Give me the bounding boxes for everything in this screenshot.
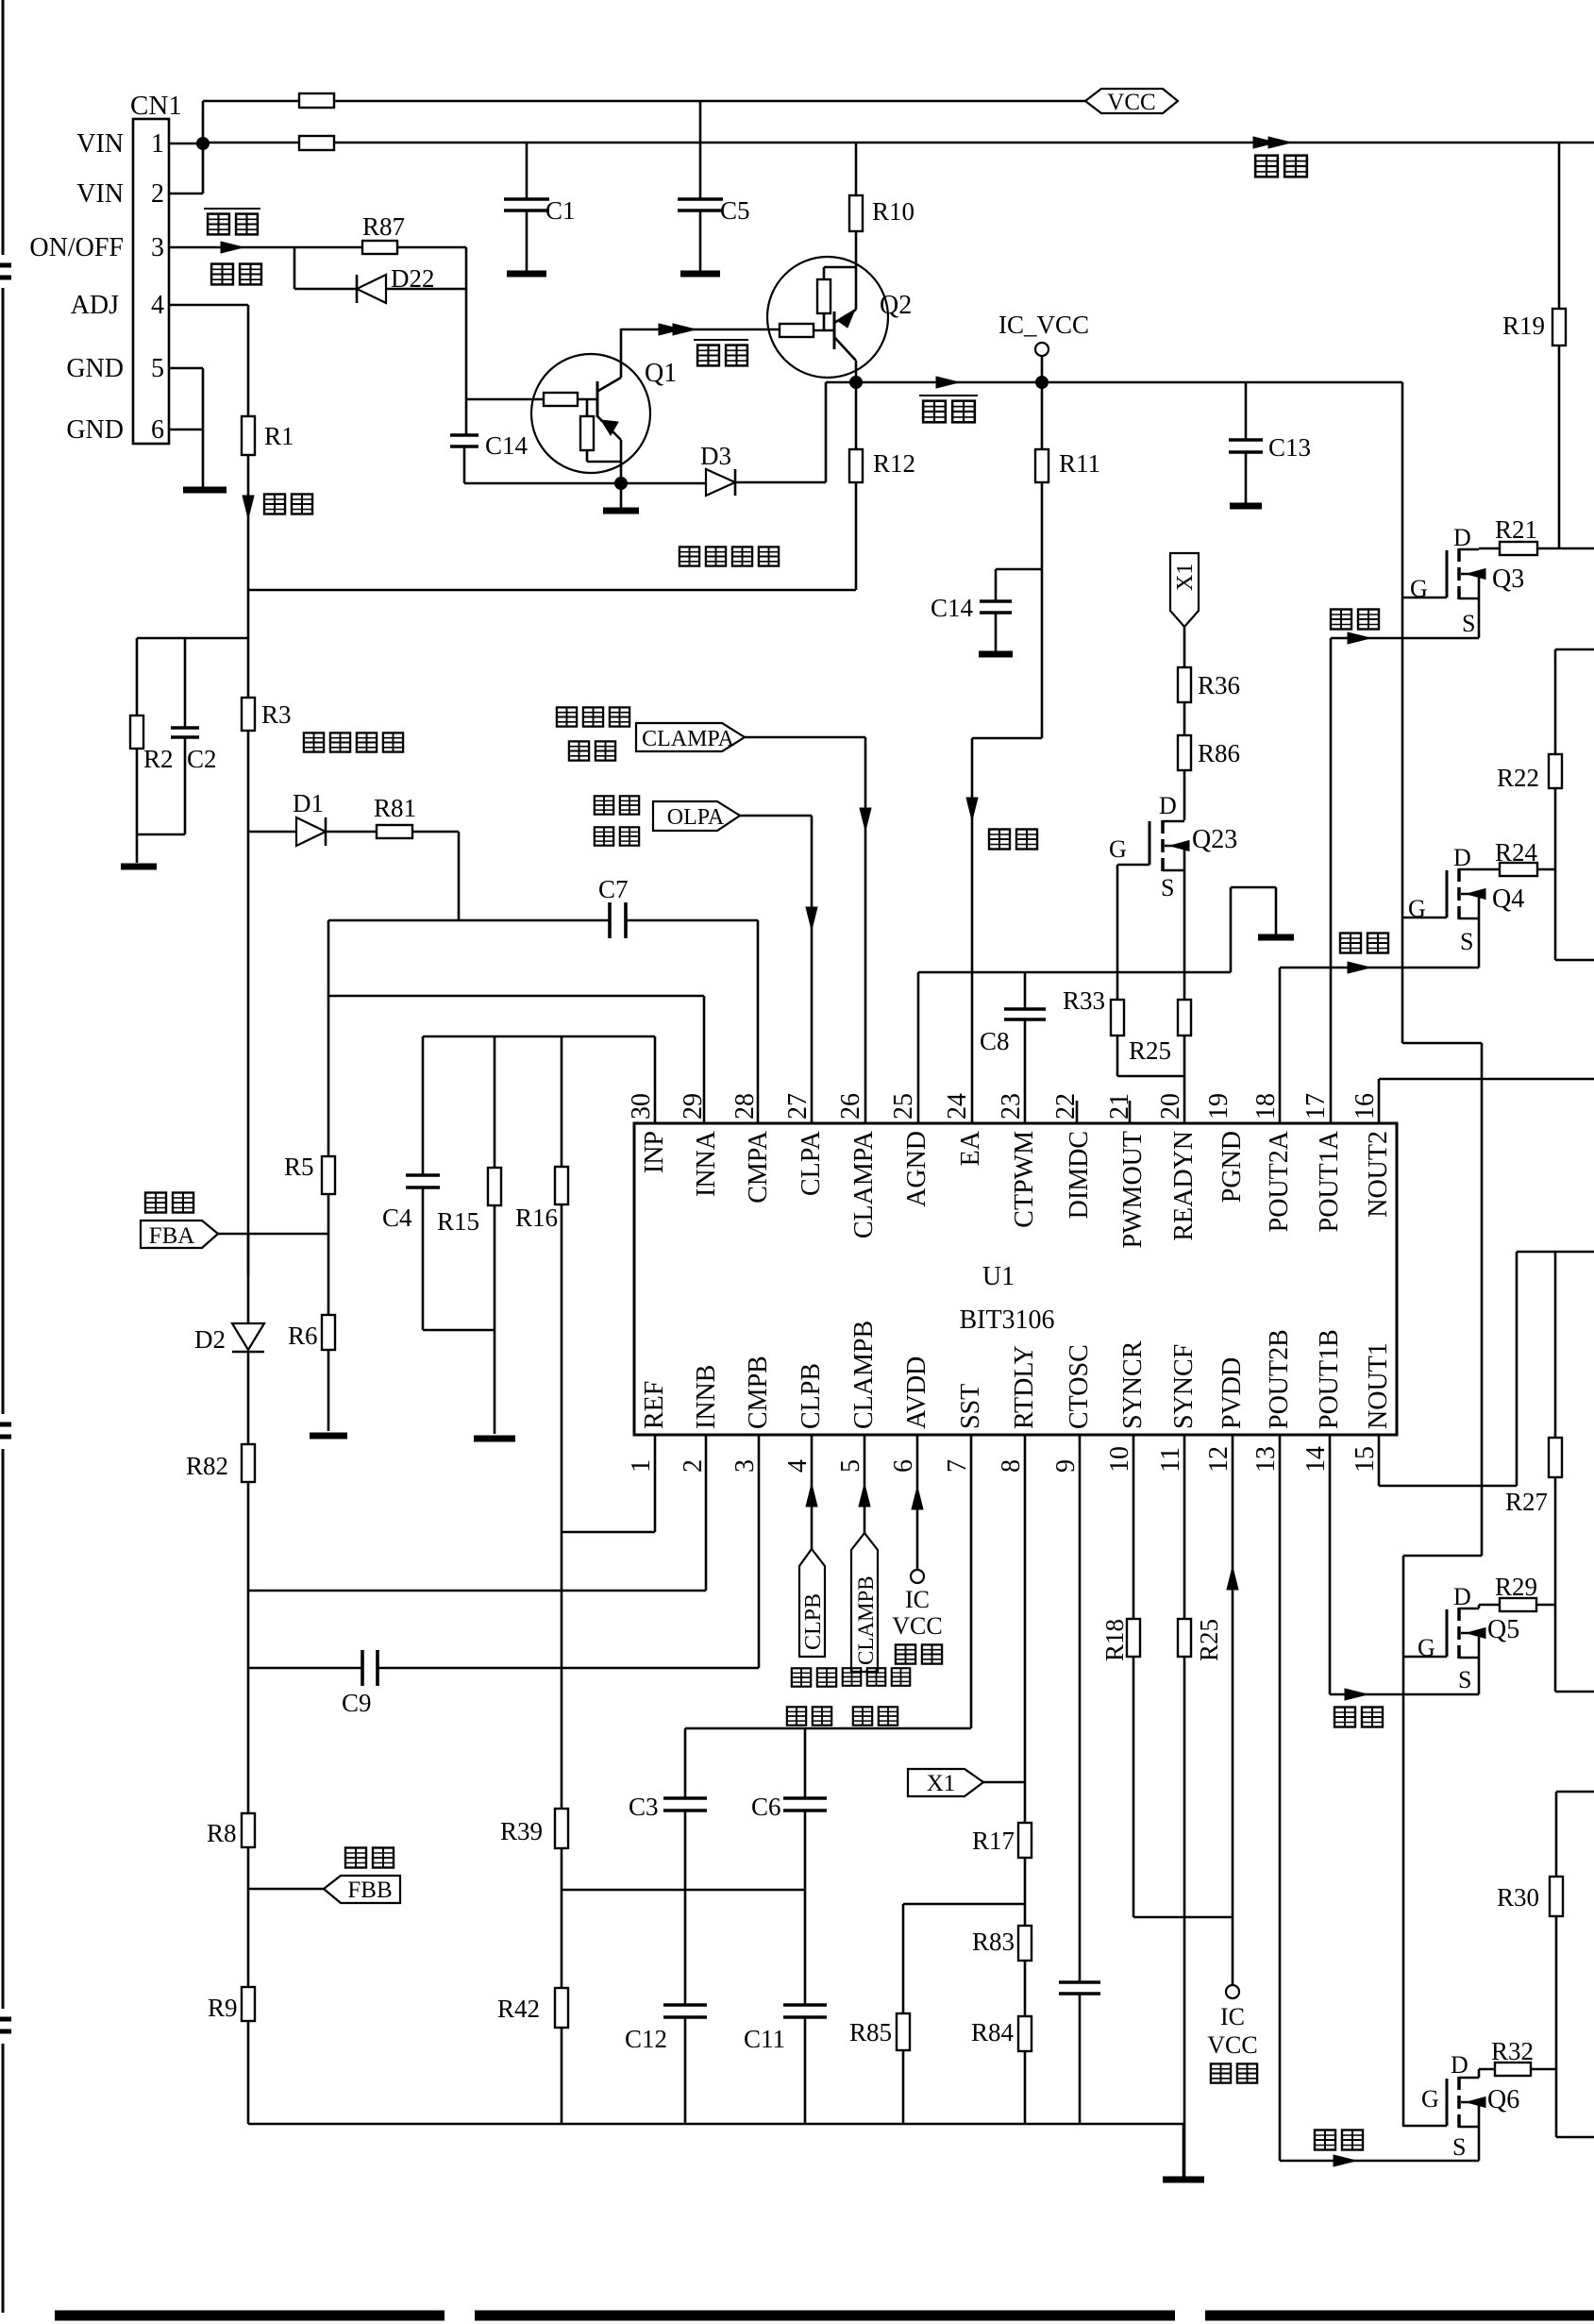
wire OLPA line [740,816,817,1123]
svg-text:R5: R5 [284,1153,314,1181]
ground PGND [1258,935,1294,941]
U1 pin 16 NOUT2 [1351,1093,1393,1218]
label Q2 [880,291,912,320]
svg-text:VIN: VIN [76,179,124,209]
svg-text:11: 11 [1156,1447,1185,1473]
svg-text:R25: R25 [1129,1036,1171,1065]
svg-text:NOUT2: NOUT2 [1364,1131,1393,1218]
svg-text:S: S [1462,610,1475,637]
svg-text:SYNCR: SYNCR [1118,1340,1148,1429]
svg-text:PWMOUT: PWMOUT [1118,1131,1148,1248]
label R27 [1505,1488,1548,1516]
label VIN pin1 [76,129,124,159]
resistor R3 [242,698,255,731]
svg-text:R11: R11 [1059,449,1100,478]
U1 pin 14 POUT1B [1301,1329,1344,1473]
label 激励 drive3 [1334,1708,1383,1727]
label Q4 [1492,884,1524,914]
wire ADJ [169,305,248,416]
resistor R22 [1549,754,1562,788]
svg-text:C14: C14 [931,594,974,622]
ground Q1 [603,483,639,511]
wire DIMDC stub [1076,1101,1079,1123]
svg-text:9: 9 [1051,1459,1081,1473]
label C7 [598,875,629,903]
label 供电 supply [1255,156,1307,177]
wire D3 cathode [735,382,826,482]
label Q5 G [1418,1634,1435,1661]
label R81 [374,794,416,822]
U1 pin 8 RTDLY [997,1345,1039,1473]
svg-text:C3: C3 [629,1793,659,1821]
label R6 [288,1322,318,1350]
svg-text:CLPB: CLPB [797,1363,826,1429]
svg-text:4: 4 [151,291,164,320]
svg-text:POUT1A: POUT1A [1315,1130,1344,1232]
label R11 [1059,449,1100,478]
node Q2 emitter [849,376,863,389]
svg-text:22: 22 [1051,1093,1081,1120]
svg-text:R85: R85 [849,2018,892,2046]
svg-text:R84: R84 [971,2018,1015,2046]
label D2 [194,1325,226,1354]
svg-text:D: D [1451,2051,1468,2079]
capacitor C1 [504,143,549,271]
capacitor C3 [663,1798,707,2005]
wire POUT1A drive [1331,632,1479,1123]
diode D22 [357,275,386,303]
ground CN1 [183,487,227,494]
label Q4 S [1460,928,1473,955]
svg-text:29: 29 [679,1093,708,1120]
label R25a [1129,1036,1171,1065]
svg-text:R19: R19 [1502,312,1545,340]
svg-text:25: 25 [889,1093,918,1120]
svg-text:X1: X1 [1173,564,1198,591]
svg-text:ON/OFF: ON/OFF [29,233,124,262]
svg-text:CMPA: CMPA [744,1130,773,1204]
wire ground bus [248,2123,1183,2126]
transistor Q6 [1447,2069,1485,2161]
label D22 [391,264,435,293]
resistor R11 [1035,382,1049,738]
label Q23 D [1159,792,1177,819]
wire Q1 collector to Q2 [621,324,780,335]
label R21 [1495,515,1537,544]
label C11 [744,2025,785,2053]
svg-text:CLPA: CLPA [797,1130,826,1196]
resistor R16 [555,1036,568,1809]
wire R32 bottom [1556,2069,1594,2137]
wire R30 to R32 [1555,1916,1558,2069]
label R39 [500,1817,543,1845]
label CN1 pin3 [151,233,164,262]
label 启动供电 startup [680,547,779,565]
resistor R27 [1549,1438,1562,1477]
capacitor C8 [1004,972,1046,1123]
svg-text:19: 19 [1204,1093,1233,1120]
svg-text:C13: C13 [1268,433,1311,462]
svg-text:10: 10 [1105,1446,1134,1473]
wire bottom page bar [55,2311,1594,2321]
wire PGND [1231,887,1276,972]
wire R29 line [1479,1604,1555,1607]
connector CN1 [133,119,169,444]
label R86 [1198,739,1240,767]
wire Q23 source [1183,870,1186,1000]
svg-text:CTPWM: CTPWM [1010,1131,1039,1228]
U1 pin 1 REF [627,1381,669,1473]
svg-text:R33: R33 [1063,986,1105,1015]
label R3 [261,700,292,729]
U1 pin 21 PWMOUT [1105,1093,1148,1248]
svg-text:U1: U1 [982,1262,1015,1291]
capacitor C7 [610,902,626,938]
wire R27 to R29 [1554,1477,1557,1605]
net IC_VCC terminal [1035,343,1049,382]
svg-text:R81: R81 [374,794,416,822]
label R36 [1198,671,1240,699]
svg-text:NOUT1: NOUT1 [1364,1342,1393,1429]
svg-text:R21: R21 [1495,515,1537,544]
svg-text:D1: D1 [293,789,324,817]
wire PWMOUT stub [1129,1101,1132,1123]
U1 pin 9 CTOSC [1051,1344,1094,1473]
svg-text:D3: D3 [700,442,731,470]
wire INP down [654,1036,657,1123]
capacitor C9 [362,1650,378,1686]
label R83 [972,1928,1015,1956]
wire ON/OFF [169,242,466,253]
label 点灯 lamp1 [211,264,261,285]
resistor R12 [849,382,863,590]
resistor R1 [242,416,255,455]
svg-text:G: G [1421,2085,1439,2113]
label R24 [1495,838,1538,867]
svg-text:D: D [1453,1583,1471,1610]
wire INNA down [703,996,706,1123]
label C14b [931,594,974,622]
svg-text:R32: R32 [1491,2037,1534,2065]
capacitor C14a [450,435,478,483]
svg-text:1: 1 [151,129,164,159]
svg-text:21: 21 [1105,1093,1134,1120]
resistor R36 [1178,667,1191,702]
U1 pin 20 READYN [1156,1093,1199,1241]
label R32 [1491,2037,1534,2065]
svg-text:S: S [1452,2133,1466,2161]
resistor R5 [322,1156,335,1194]
label R12 [873,449,915,478]
wire R85 branch [903,1904,1025,2013]
label C6 [751,1793,781,1821]
svg-text:RTDLY: RTDLY [1010,1345,1039,1429]
label 亮度控制 brightness ctl [304,733,403,751]
svg-text:X1: X1 [927,1771,956,1796]
resistor R42 [555,1890,568,2124]
U1 pin 29 INNA [679,1093,721,1197]
label 开关 switch2 [694,340,748,365]
label Q6 S [1452,2133,1466,2161]
label GND pin6 [66,415,124,445]
svg-text:R12: R12 [873,449,915,478]
wire Q4 gate [1402,917,1447,919]
svg-text:1: 1 [627,1459,656,1473]
ground C1 [507,271,546,278]
net VCC flag [1085,89,1178,115]
label Q5 [1487,1615,1519,1644]
svg-text:R83: R83 [972,1928,1015,1956]
svg-text:D: D [1159,792,1177,819]
net FBB flag [324,1876,400,1903]
wire gate chain [1402,382,1482,2126]
U1 pin 18 POUT2A [1251,1093,1294,1232]
resistor R25a [1178,1000,1191,1036]
wire INNB line [248,1435,706,1591]
svg-text:VCC: VCC [1107,90,1155,115]
U1 pin 6 AVDD [889,1356,931,1473]
ground C13 [1230,503,1262,510]
resistor R83 [1018,1926,1032,1961]
svg-text:R18: R18 [1100,1619,1129,1661]
label 点灯 lamp2 [989,830,1037,850]
wire CMPA down [757,920,760,1123]
wire PVDD supply [1227,1435,1238,1985]
svg-text:4: 4 [783,1459,813,1473]
wire SST line [685,1435,971,1798]
label GND pin5 [66,354,124,383]
wire D2 to R82 [247,1352,250,1444]
label R82 [186,1452,228,1480]
capacitor C12 [663,2005,707,2124]
svg-text:13: 13 [1251,1446,1281,1473]
ground R15 [474,1436,515,1442]
label C13 [1268,433,1311,462]
svg-text:R17: R17 [972,1827,1015,1855]
label R1 [264,422,294,450]
label R85 [849,2018,892,2046]
wire CTOSC [1079,1435,1082,1982]
svg-text:ADJ: ADJ [71,291,119,320]
label R25b [1195,1619,1223,1661]
ground R2 [121,864,157,870]
svg-text:D2: D2 [194,1325,226,1354]
svg-text:BIT3106: BIT3106 [959,1305,1054,1335]
svg-text:D: D [1453,844,1471,871]
svg-text:D: D [1453,524,1471,551]
label 激励 drive1 [1331,610,1379,630]
U1 pin 15 NOUT1 [1351,1342,1393,1473]
label Q6 G [1421,2085,1439,2113]
U1 pin 25 AGND [889,1093,931,1207]
capacitor C11 [783,2005,827,2124]
wire Q23 gate [1117,865,1149,1000]
wire CLPB arrow [806,1435,817,1549]
svg-text:CLAMPA: CLAMPA [642,727,734,751]
net OLPA flag [653,801,740,831]
wire R27 top [1554,1252,1557,1438]
svg-text:POUT2A: POUT2A [1265,1130,1294,1232]
label Q23 S [1161,874,1174,901]
wire CMPA line [328,919,758,922]
wire IC_VCC rail [826,377,1402,388]
svg-text:R24: R24 [1495,838,1538,867]
svg-text:OLPA: OLPA [667,805,725,830]
wire POUT1B drive [1330,1435,1479,1700]
svg-text:14: 14 [1301,1446,1331,1473]
wire READYN [1183,1076,1186,1123]
svg-text:C6: C6 [751,1793,781,1821]
U1 pin 30 INP [627,1093,669,1173]
U1 pin 7 SST [943,1384,985,1473]
wire R39 join [562,1889,805,1892]
label CN1 pin6 [151,415,164,445]
label R16 [515,1204,558,1232]
wire R21 line [1479,547,1594,550]
svg-text:7: 7 [943,1459,972,1473]
label R8 [207,1819,237,1847]
svg-text:C11: C11 [744,2025,785,2053]
svg-text:R87: R87 [362,212,405,241]
svg-text:R2: R2 [143,745,174,773]
wire Q1 base [466,398,544,401]
svg-text:READYN: READYN [1169,1131,1199,1241]
svg-text:GND: GND [66,415,124,445]
capacitor C2 [171,638,199,834]
label IC_VCC [998,311,1089,339]
net X1 flag right [908,1769,983,1796]
svg-text:R29: R29 [1495,1573,1537,1601]
svg-text:IC: IC [905,1586,930,1613]
svg-text:C8: C8 [980,1027,1010,1055]
label R42 [497,1995,540,2023]
svg-text:26: 26 [836,1093,865,1120]
label IC VCC supply 2 [1207,2003,1257,2083]
label CN1 pin5 [151,354,164,383]
label R18 [1100,1619,1129,1661]
IC U1 box [634,1123,1397,1435]
svg-text:CTOSC: CTOSC [1065,1344,1094,1429]
wire CLAMPB arrow [859,1435,870,1533]
wire Q5 gate [1403,1656,1447,1659]
U1 pin 12 PVDD [1204,1357,1247,1473]
U1 pin 11 SYNCF [1156,1344,1199,1473]
svg-text:SYNCF: SYNCF [1169,1344,1199,1429]
wire NOUT2 path [1379,1079,1594,1123]
label C2 [187,745,217,773]
label Q1 [645,359,677,388]
wire Q3 gate [1402,597,1447,599]
U1 pin 13 POUT2B [1251,1329,1294,1473]
wire R2C2 branch [137,637,248,640]
wire R22 top [1555,649,1594,754]
resistor R30 [1550,1877,1563,1916]
resistor R29 [1500,1598,1536,1611]
resistor R8 [242,1813,255,1847]
svg-text:R27: R27 [1505,1488,1548,1516]
resistor R18 [1127,1435,1140,1917]
net FBA flag [141,1221,218,1249]
wire ADJ rail [247,590,250,1275]
capacitor C6 [783,1798,827,2005]
wire X1 to pin8 [983,1435,1025,1823]
label C9 [342,1689,372,1717]
capacitor C14b [980,569,1042,651]
label ADJ [71,291,119,320]
svg-text:R25: R25 [1195,1619,1223,1661]
wire R36 to R86 [1183,702,1186,735]
wire R83 to R84 [1024,1961,1027,2016]
label R19 [1502,312,1545,340]
svg-text:12: 12 [1204,1446,1233,1473]
wire CN1 pin1 stub [169,143,203,145]
label Q3 S [1462,610,1475,637]
fuse F1 [299,93,334,108]
ground C5 [680,271,720,278]
connector CN1 label [130,91,182,121]
svg-text:GND: GND [66,354,124,383]
wire Q6 gate [1402,2125,1447,2128]
svg-text:17: 17 [1301,1093,1331,1120]
label U1 [982,1262,1015,1291]
svg-text:PVDD: PVDD [1217,1357,1247,1429]
transistor Q4 [1447,868,1485,968]
wire VIN rail [203,142,1594,144]
svg-text:AGND: AGND [902,1131,931,1207]
label 激励 drive4 [1315,2130,1363,2150]
svg-text:3: 3 [151,233,164,262]
wire R32 line [1479,2068,1556,2071]
svg-text:R16: R16 [515,1204,558,1232]
net AVDD terminal [911,1570,924,1583]
label R22 [1497,764,1539,792]
wire Q1 bottom [464,482,706,485]
wire GND stubs [169,368,203,487]
wire R24 line [1479,868,1555,871]
wire R33 R25 join [1117,1036,1184,1076]
svg-text:C7: C7 [598,875,629,903]
label Q23 G [1109,835,1127,863]
label R15 [437,1207,479,1236]
wire 供电 arrow [1253,137,1291,148]
resistor R25b [1178,1435,1191,2177]
node Q1 emitter [614,477,628,490]
label R33 [1063,986,1105,1015]
label C14a [485,431,529,460]
resistor R17 [1018,1823,1032,1858]
svg-text:Q2: Q2 [880,291,912,320]
svg-text:16: 16 [1351,1093,1380,1120]
svg-text:S: S [1458,1666,1471,1693]
wire EA lamp [966,738,1042,1123]
label Q6 [1487,2085,1519,2114]
wire C4 R15 join [423,1329,495,1332]
wire D22 branch [294,247,466,289]
svg-text:PGND: PGND [1217,1131,1247,1203]
label CN1 pin4 [151,291,164,320]
resistor R87 [362,241,397,254]
wire R87 to C14 [465,289,468,435]
wire ADJ lower rail [247,1482,250,2124]
svg-text:Q3: Q3 [1492,564,1524,594]
svg-text:FBB: FBB [347,1878,392,1903]
svg-text:3: 3 [730,1459,760,1473]
svg-text:SST: SST [956,1384,985,1429]
label C4 [382,1204,412,1232]
resistor R15 [488,1036,501,1434]
svg-text:R42: R42 [497,1995,540,2023]
svg-text:REF: REF [640,1381,669,1429]
